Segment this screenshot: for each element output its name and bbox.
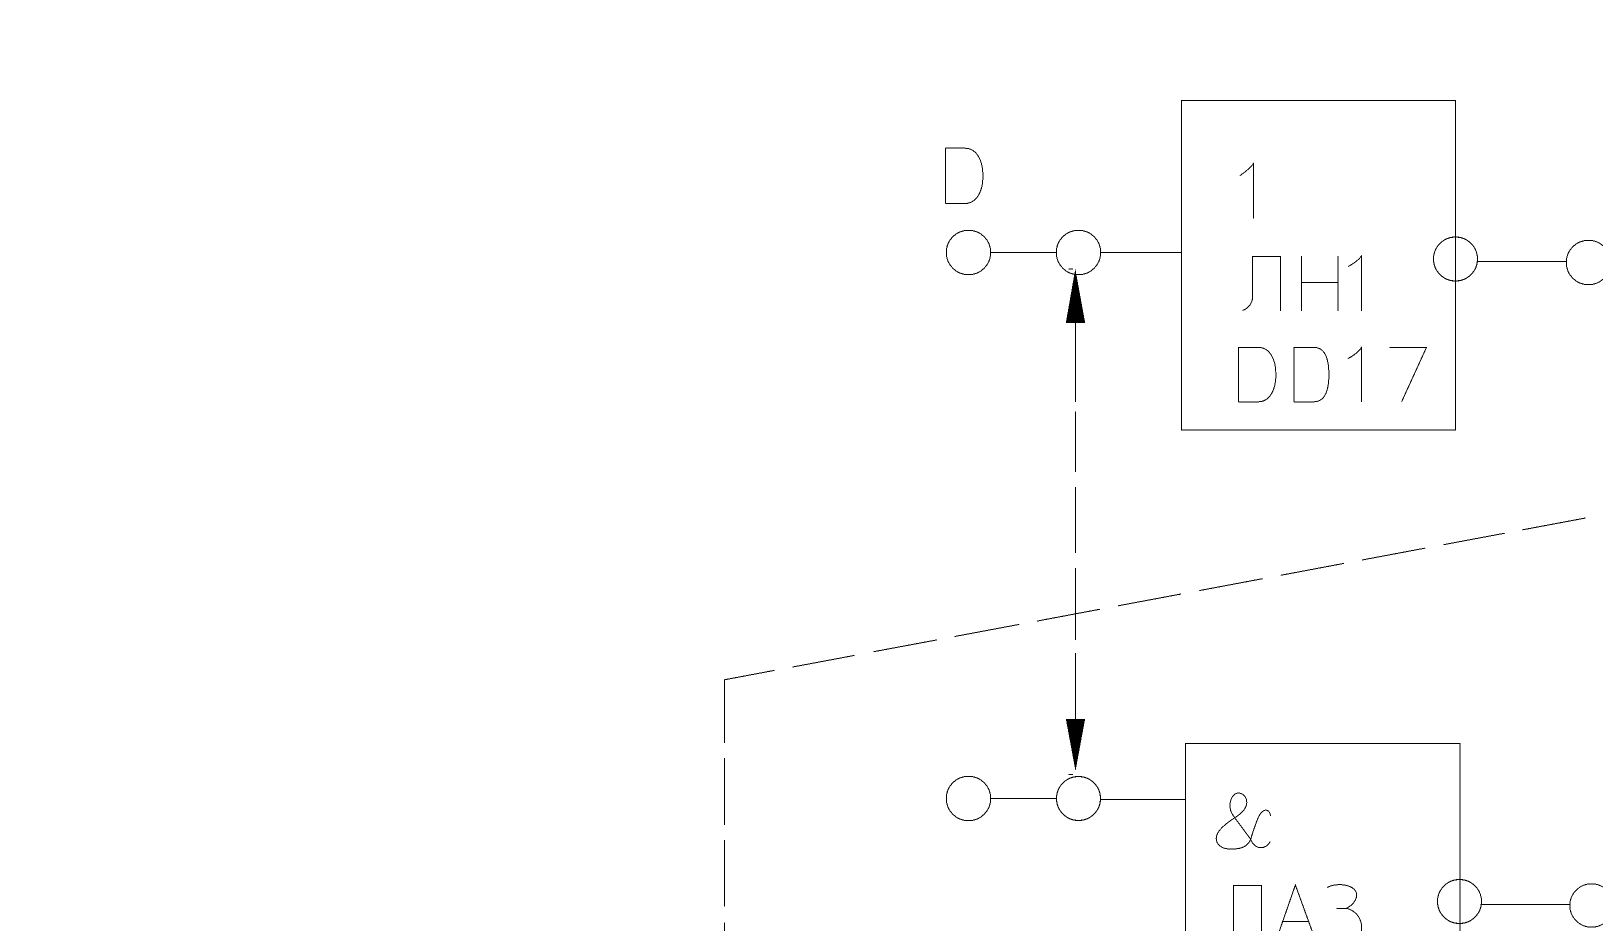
output pin circle on ЛА3 — [1438, 880, 1482, 924]
dash fragment at bottom arrow tip — [1069, 774, 1074, 776]
wire between bottom input circles — [991, 798, 1057, 800]
gate type label ЛА3 — [1234, 885, 1362, 931]
wire from DD17 output — [1478, 261, 1567, 263]
logic gate box DD17 — [1182, 101, 1456, 431]
gate type label ЛН1 — [1243, 256, 1362, 311]
dashed boundary corner (vertical) — [724, 680, 726, 931]
input node circle bottom row — [1057, 777, 1101, 821]
input node circle top row — [1056, 230, 1100, 274]
node label D — [946, 148, 983, 203]
reference designator DD17 — [1238, 347, 1426, 401]
output destination circle top row — [1566, 240, 1603, 284]
wire from ЛА3 output — [1482, 904, 1571, 906]
dashed boundary line (diagonal) — [724, 518, 1585, 680]
wire from node to ЛА3 input — [1101, 799, 1186, 801]
gate function label & — [1216, 793, 1270, 849]
logic gate box ЛА3 — [1186, 744, 1461, 931]
wire between top input circles — [991, 252, 1057, 254]
dashed link line (vertical) — [1075, 323, 1077, 719]
input pin circle (left) bottom row — [946, 776, 990, 820]
up arrowhead of link line — [1066, 269, 1085, 323]
wire from node to DD17 input — [1101, 252, 1182, 254]
output destination circle bottom row — [1570, 884, 1603, 927]
output pin circle on DD17 — [1434, 237, 1478, 281]
gate function label 1 (inverter) — [1240, 164, 1254, 219]
input pin circle (left) top row — [946, 230, 990, 274]
dash fragment at top arrow tip — [1069, 268, 1074, 270]
down arrowhead of link line — [1066, 719, 1085, 771]
